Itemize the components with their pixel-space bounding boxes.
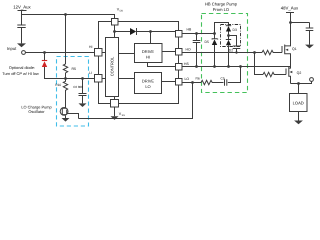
- transistor Q1: [282, 23, 297, 67]
- box CONTROL: [106, 38, 119, 97]
- capacitor C-12V bypass: [17, 15, 25, 44]
- ground arrow VSS: [111, 116, 119, 120]
- wire VDD internal: [114, 25, 116, 38]
- pin LI: [89, 71, 102, 82]
- wire load to ground: [298, 112, 300, 121]
- svg-text:SS: SS: [122, 114, 126, 117]
- diode bootstrap internal: [115, 28, 176, 35]
- box dash-dot clamp: [221, 25, 241, 47]
- ground arrow 12V: [17, 43, 26, 47]
- svg-text:Q1: Q1: [292, 47, 297, 51]
- node HO row / Q2 riser: [253, 51, 256, 54]
- note optional diode text: [2, 65, 39, 76]
- wire load drop: [298, 84, 300, 94]
- node HS / D5: [213, 65, 216, 68]
- pin HO: [176, 48, 191, 55]
- node HB / D5 riser: [213, 32, 216, 35]
- capacitor C5 series: [221, 67, 241, 86]
- box DRIVE HI: [135, 44, 163, 63]
- transistor Q2: [286, 67, 301, 84]
- svg-text:LO: LO: [145, 84, 150, 89]
- node R5/R10: [64, 77, 67, 80]
- wire input row to HI: [25, 52, 94, 54]
- node output / load: [297, 82, 300, 85]
- svg-text:Q2: Q2: [297, 71, 302, 75]
- label HB Charge Pump From LO: [205, 1, 238, 11]
- label LO Charge Pump Oscillator: [21, 104, 51, 114]
- supply label 12V_Aux: [13, 5, 31, 15]
- wire output row: [291, 81, 312, 83]
- pin HI: [89, 45, 102, 56]
- ground arrow C6: [79, 103, 87, 107]
- node input row / optional diode: [43, 51, 46, 54]
- wire HS row: [182, 66, 291, 68]
- node 12V rail / R5 branch: [64, 13, 67, 16]
- wire VSS ground stub: [114, 97, 116, 117]
- svg-text:DRIVE: DRIVE: [142, 49, 155, 54]
- svg-text:HO: HO: [186, 48, 191, 52]
- wire LO row: [182, 82, 201, 84]
- wire drive HI supply: [150, 32, 152, 44]
- ground arrow 48V cap: [305, 45, 314, 49]
- node VDD internal: [113, 30, 116, 33]
- transistor Q-osc: [60, 107, 78, 119]
- node D2 D3 midpoint: [227, 34, 230, 37]
- svg-text:D3: D3: [233, 28, 237, 32]
- svg-text:48V_Aux: 48V_Aux: [281, 6, 299, 11]
- wire Q2 gate riser: [255, 53, 264, 75]
- supply label 48V_Aux: [281, 6, 299, 23]
- diode D2: [226, 40, 233, 67]
- pin VSS: [111, 100, 126, 118]
- wire drive LO to LO pin: [162, 81, 176, 83]
- wire riser HB to D3: [215, 23, 229, 34]
- diode D5 zener: [205, 34, 219, 67]
- wire LI to control: [102, 78, 106, 80]
- box green HB charge pump: [202, 14, 248, 93]
- svg-text:R10: R10: [55, 83, 61, 87]
- node 48V rail: [289, 21, 292, 24]
- resistor R-gate Q1: [262, 50, 282, 54]
- svg-text:LOAD: LOAD: [293, 101, 304, 106]
- wire 12V rail: [22, 15, 115, 19]
- svg-text:DD: DD: [120, 10, 124, 13]
- box LOAD: [290, 94, 308, 112]
- svg-text:Oscillator: Oscillator: [28, 109, 45, 114]
- svg-text:LI: LI: [89, 71, 92, 75]
- svg-text:From LO: From LO: [213, 7, 229, 12]
- svg-text:HI: HI: [89, 45, 92, 49]
- output terminal: [310, 78, 314, 82]
- capacitor C2 pump: [229, 36, 241, 54]
- ground arrow oscillator FET: [62, 116, 70, 122]
- capacitor C6: [73, 79, 86, 104]
- pin HS: [176, 62, 190, 70]
- node HS / CB: [195, 65, 198, 68]
- resistor R10: [55, 79, 67, 108]
- svg-text:HI: HI: [146, 55, 150, 60]
- capacitor CB bootstrap: [193, 34, 201, 67]
- svg-text:HB Charge Pump: HB Charge Pump: [205, 1, 238, 6]
- box DRIVE LO: [135, 73, 162, 94]
- wire node row to LI: [57, 78, 95, 80]
- pin VDD: [112, 8, 124, 25]
- node LO / feedback riser: [191, 81, 194, 84]
- svg-text:D2: D2: [229, 48, 233, 52]
- resistor R-gate Q2: [263, 72, 286, 76]
- wire 48V rail to bypass cap: [291, 22, 310, 24]
- svg-text:Optional diode:: Optional diode:: [9, 65, 35, 70]
- diode D-optional (red): [42, 53, 57, 79]
- svg-text:Input: Input: [7, 46, 17, 51]
- pin LO: [176, 77, 190, 85]
- wire HB rail: [182, 33, 215, 35]
- svg-text:R6: R6: [196, 77, 200, 81]
- node HS / C5 riser: [239, 65, 242, 68]
- svg-text:Turn off CP w/ HI low: Turn off CP w/ HI low: [2, 71, 39, 76]
- wire HI to control: [102, 52, 106, 54]
- wire 12V drop to R5: [65, 15, 67, 65]
- box teal LO charge pump oscillator: [57, 57, 89, 127]
- node HS / D2: [227, 65, 230, 68]
- capacitor C-48V bypass: [306, 23, 314, 45]
- svg-text:12V_Aux: 12V_Aux: [13, 5, 31, 10]
- node internal HB rail / drive HI feed: [149, 30, 152, 33]
- wire control to drive LO: [119, 78, 135, 80]
- wire oscillator feedback bottom: [79, 83, 193, 119]
- IC outline U1: [99, 22, 179, 104]
- svg-text:CONTROL: CONTROL: [109, 56, 114, 76]
- diode D3: [226, 26, 237, 40]
- wire HO row: [182, 52, 262, 54]
- wire drive HI to HS pin: [148, 63, 176, 67]
- svg-text:DRIVE: DRIVE: [142, 79, 155, 84]
- wire drive HI to HO pin: [162, 51, 175, 53]
- svg-text:HB: HB: [187, 28, 192, 32]
- node C6 branch: [81, 77, 84, 80]
- svg-text:C6 808: C6 808: [73, 85, 83, 89]
- svg-text:R5: R5: [72, 67, 77, 71]
- resistor R6: [196, 77, 224, 85]
- wire control to drive HI: [119, 53, 135, 55]
- pin HB: [176, 28, 192, 37]
- svg-text:LO: LO: [185, 77, 190, 81]
- node HB / CB: [195, 32, 198, 35]
- svg-text:HS: HS: [184, 62, 189, 66]
- resistor R5: [63, 64, 76, 79]
- ground arrow LOAD: [294, 121, 303, 125]
- svg-text:D5: D5: [205, 40, 209, 44]
- input terminal: [7, 46, 25, 54]
